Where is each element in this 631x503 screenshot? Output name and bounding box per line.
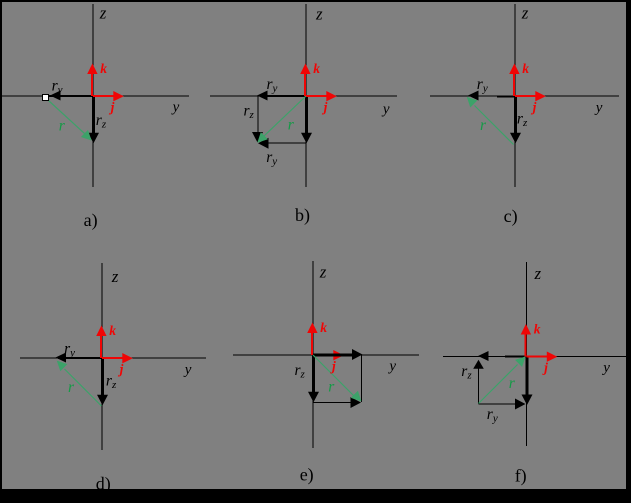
panel a: white drag handle square xyxy=(43,95,49,101)
panel f: unit vector k (red, up) xyxy=(525,334,527,357)
panel d: component arrow r_y (black, left from origin, full shaft) xyxy=(58,357,102,359)
panel c: unit vector k (red, up) xyxy=(513,73,515,96)
panel e: square right edge line xyxy=(361,355,363,402)
panel c: vector r (green diagonal, pointing up-left) xyxy=(475,106,514,145)
svg-text:r: r xyxy=(288,117,295,134)
svg-text:f): f) xyxy=(515,465,527,486)
panel d: z axis xyxy=(101,263,103,450)
svg-text:k: k xyxy=(313,61,320,76)
svg-text:y: y xyxy=(171,100,180,116)
panel e: unit vector j (red, drawn under black r_y shaft) xyxy=(313,354,335,356)
panel a: component arrow r_z (black, down from origin) xyxy=(92,96,95,133)
svg-text:z: z xyxy=(315,5,323,24)
panel a: unit vector k (red, up) xyxy=(91,73,93,96)
svg-text:y: y xyxy=(381,102,390,118)
svg-text:r: r xyxy=(509,375,516,392)
panel f: unit vector j (red, right) xyxy=(527,356,549,358)
panel f: y axis xyxy=(443,356,626,358)
svg-text:d): d) xyxy=(96,473,111,494)
panel b: z axis xyxy=(305,4,307,187)
svg-text:z: z xyxy=(99,4,107,23)
panel b: square left edge line xyxy=(257,96,259,134)
panel c: unit vector j (red, right) xyxy=(515,95,537,97)
panel f: up arrowhead at top of left edge (r_z) xyxy=(473,360,484,369)
panel d: vector r (green diagonal, pointing up-left) xyxy=(65,369,102,406)
panel b: square bottom edge line xyxy=(268,142,307,144)
panel b: y axis xyxy=(210,95,397,97)
svg-text:k: k xyxy=(534,322,541,337)
bottom border bar xyxy=(0,489,631,503)
panel d: unit vector k (red, up) xyxy=(100,335,102,358)
panel f: square left edge line xyxy=(478,362,480,404)
panel f: square bottom edge line xyxy=(479,403,518,405)
panel f: vector r (green diagonal, pointing up-right to origin) xyxy=(479,365,518,404)
panel a: y axis xyxy=(2,95,189,97)
svg-text:z: z xyxy=(319,263,327,282)
panel b: down arrowhead at bottom of left edge (r_z) xyxy=(252,132,263,143)
panel a: z axis xyxy=(92,4,94,187)
svg-text:y: y xyxy=(183,362,192,378)
svg-text:c): c) xyxy=(504,206,518,227)
panel e: component arrow r_y (black, right from origin) xyxy=(313,354,352,357)
svg-text:r: r xyxy=(480,117,487,134)
panel b: vector r (green diagonal to corner) xyxy=(264,96,306,136)
svg-text:z: z xyxy=(111,267,119,286)
svg-text:y: y xyxy=(594,100,603,116)
svg-text:y: y xyxy=(601,360,610,376)
svg-text:r: r xyxy=(68,379,75,396)
panel a: vector r (green diagonal) xyxy=(49,101,85,134)
panel e: y axis xyxy=(233,354,419,356)
panel e: z axis xyxy=(312,261,314,448)
svg-text:r: r xyxy=(328,379,335,396)
panel a: unit vector j (red, right) xyxy=(93,95,115,97)
panel e: unit vector k (red, up) xyxy=(311,332,313,355)
svg-text:b): b) xyxy=(295,205,310,226)
panel d: unit vector j (red, right) xyxy=(102,357,124,359)
svg-text:z: z xyxy=(534,264,542,283)
svg-text:z: z xyxy=(521,3,529,22)
panel d: y axis xyxy=(20,357,206,359)
panel b: component arrow r_y top (black, left from origin) xyxy=(264,95,306,97)
panel c: component arrow r_z (black, down from origin) xyxy=(514,96,517,133)
panel d: component arrow r_z (black, down from origin) xyxy=(101,358,104,395)
panel c: component arrow r_y (black, left from origin, short shaft) xyxy=(497,96,515,98)
svg-text:k: k xyxy=(100,61,107,76)
panel b: unit vector k (red, up) xyxy=(304,73,306,96)
panel f: component arrow r_y (black, left from origin, short shaft) xyxy=(505,356,527,358)
panel e: component arrow r_z (black, down from origin) xyxy=(312,355,315,392)
panel f: component arrow r_z (black, down from origin) xyxy=(526,357,529,396)
panel a: component arrow r_y (black, left from origin) xyxy=(48,95,93,97)
svg-text:a): a) xyxy=(84,210,98,231)
panel e: square bottom edge line xyxy=(313,402,351,404)
left border bar xyxy=(0,0,2,503)
panel b: left arrowhead on bottom edge (r_y) xyxy=(258,138,269,149)
svg-text:r: r xyxy=(59,117,66,134)
panel e: right arrowhead on bottom edge (r_y) xyxy=(351,397,362,408)
top border bar xyxy=(0,0,631,2)
panel f: right arrowhead on bottom edge (r_y) xyxy=(515,399,526,410)
svg-text:k: k xyxy=(522,61,529,76)
panel e: vector r (green diagonal to bottom-right corner) xyxy=(313,355,355,397)
svg-text:k: k xyxy=(320,320,327,335)
panel f: z axis xyxy=(526,262,528,446)
svg-text:y: y xyxy=(387,359,396,375)
right border bar xyxy=(626,0,631,503)
panel b: component arrow r_z (black, down from origin) xyxy=(305,96,308,133)
panel c: y axis xyxy=(430,95,619,97)
panel c: z axis xyxy=(514,4,516,187)
svg-text:k: k xyxy=(109,323,116,338)
svg-text:e): e) xyxy=(300,464,314,485)
panel b: unit vector j (red, right) xyxy=(306,95,328,97)
